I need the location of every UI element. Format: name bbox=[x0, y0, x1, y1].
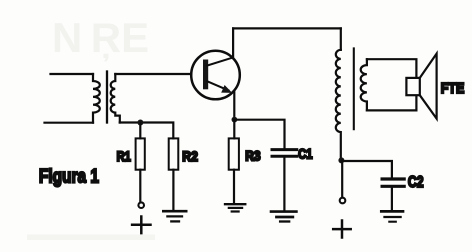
svg-text:Figura 1: Figura 1 bbox=[39, 165, 99, 187]
svg-text:R2: R2 bbox=[182, 149, 198, 164]
svg-text:R3: R3 bbox=[245, 149, 260, 164]
svg-text:R1: R1 bbox=[117, 149, 132, 164]
svg-text:FTE: FTE bbox=[441, 81, 465, 97]
svg-text:N ŖE: N ŖE bbox=[52, 14, 149, 62]
svg-text:C2: C2 bbox=[408, 174, 424, 191]
svg-text:C1: C1 bbox=[298, 146, 312, 162]
